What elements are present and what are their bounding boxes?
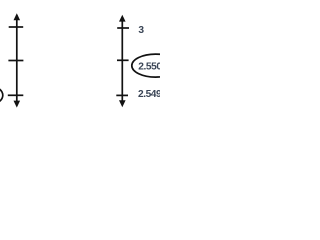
svg-text:3: 3	[138, 25, 144, 36]
left number line bottom arrowhead	[14, 101, 21, 108]
left number line shaft	[16, 15, 18, 106]
svg-text:2.550: 2.550	[138, 61, 160, 72]
right number line shaft	[121, 17, 123, 105]
left number line tick 2	[8, 60, 23, 62]
svg-text:2.549: 2.549	[138, 89, 160, 100]
circled value ellipse around 2.550	[132, 54, 179, 77]
background	[0, 0, 160, 120]
right number line bottom arrowhead	[119, 100, 126, 107]
right number line tick 3	[116, 94, 128, 96]
left number line top arrowhead	[14, 13, 21, 20]
right number line top arrowhead	[119, 15, 126, 22]
left number line tick 1	[9, 26, 24, 28]
left number line tick 3	[8, 94, 23, 96]
right number line tick 2	[117, 59, 129, 61]
left cut-off circled label ellipse	[0, 84, 3, 107]
right number line tick 1	[117, 27, 129, 29]
